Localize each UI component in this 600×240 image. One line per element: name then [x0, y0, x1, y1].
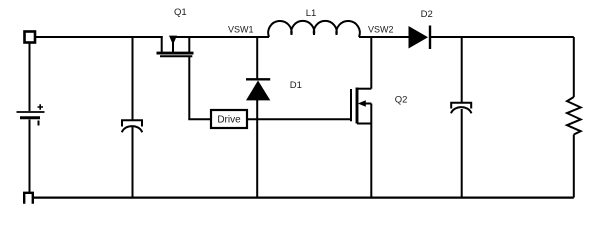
wire drive output to Q2 gate: [248, 118, 351, 120]
mosfet Q2 gate bar: [350, 89, 352, 121]
wire Q1 gate drop: [188, 56, 190, 119]
wire C2 bottom lead: [461, 109, 463, 198]
svg-text:Q2: Q2: [395, 94, 408, 105]
wire D1 bottom lead: [256, 100, 258, 198]
battery plus sign: [38, 104, 44, 109]
resistor R load zigzag: [567, 97, 581, 135]
battery minus tick: [38, 121, 40, 126]
inductor L1 arcs: [268, 21, 360, 37]
battery V1 top plate: [17, 111, 45, 113]
svg-text:D2: D2: [421, 9, 433, 20]
wire drive input: [188, 118, 210, 120]
capacitor C2 top plate bracket: [451, 103, 471, 109]
wire right edge top: [573, 37, 575, 97]
wire D1 top lead: [256, 37, 258, 79]
wire top rail left segment: [36, 36, 163, 38]
capacitor C1 curved plate: [122, 126, 142, 132]
diode D2 cathode bar: [429, 26, 431, 50]
capacitor C1 top plate bracket: [122, 120, 142, 126]
wire C1 bottom lead: [132, 126, 134, 198]
wire C2 top lead: [461, 37, 463, 103]
capacitor C2 curved plate: [451, 107, 471, 113]
battery V1 bottom plate: [20, 116, 40, 119]
svg-text:VSW2: VSW2: [368, 25, 394, 35]
mosfet Q2 body stub: [363, 103, 371, 105]
diode D1 triangle: [246, 81, 270, 101]
wire battery top lead: [29, 44, 31, 111]
mosfet Q1 gate bar: [160, 55, 192, 57]
mosfet Q1 source leg: [161, 36, 163, 53]
mosfet Q2 source stub: [357, 123, 371, 125]
wire battery bottom lead: [29, 120, 31, 193]
svg-text:VSW1: VSW1: [228, 25, 254, 35]
input terminal top-left square: [25, 32, 36, 43]
wire Q2 drain lead: [370, 37, 372, 89]
input terminal bottom-left open square: [24, 193, 33, 204]
wire top rail Q1 to L1: [175, 36, 269, 38]
svg-text:Q1: Q1: [174, 7, 187, 18]
mosfet Q2 channel bar: [356, 88, 359, 124]
mosfet Q1 channel bar: [157, 52, 194, 55]
mosfet Q2 body arrow head: [358, 100, 366, 107]
wire Q2 source lead: [370, 104, 372, 198]
drive box: [211, 110, 247, 128]
svg-text:D1: D1: [290, 80, 302, 91]
svg-text:L1: L1: [306, 8, 317, 19]
wire top rail D2 to corner: [431, 36, 574, 38]
svg-text:Drive: Drive: [217, 115, 241, 126]
wire top rail L1 to D2: [359, 36, 409, 38]
diode D2 triangle: [409, 26, 429, 49]
mosfet Q1 body arrow head: [169, 36, 177, 45]
wire right edge bottom: [573, 135, 575, 198]
bottom rail wire: [33, 196, 574, 198]
mosfet Q1 body arrow stem: [172, 42, 174, 53]
mosfet Q1 drain leg: [188, 36, 190, 53]
diode D1 cathode bar: [246, 78, 270, 80]
wire C1 top lead: [132, 37, 134, 120]
mosfet Q2 drain stub: [357, 88, 371, 90]
